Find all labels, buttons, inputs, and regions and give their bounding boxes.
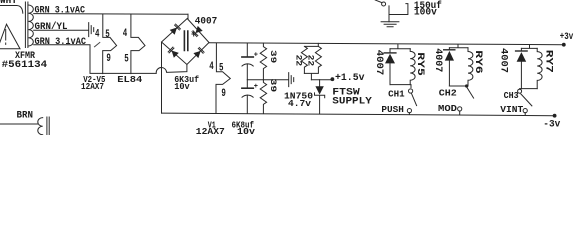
svg-text:5: 5 [124, 53, 129, 65]
wire node +1.5v [311, 79, 331, 81]
svg-text:4007: 4007 [373, 50, 384, 76]
svg-text:22: 22 [306, 55, 316, 67]
svg-text:CH3: CH3 [504, 91, 519, 101]
svg-text:4007: 4007 [195, 16, 218, 27]
warning triangle symbol [0, 24, 20, 49]
node dot +1.5v [331, 77, 335, 81]
tube V2-V5 heater symbol [103, 14, 117, 73]
wire GRN/YL center tap [34, 29, 88, 31]
node +3v dot [562, 43, 566, 47]
relay coil RY6 [468, 48, 473, 86]
svg-text:5: 5 [105, 29, 110, 41]
resistor 39 upper [260, 43, 266, 80]
transformer core bottom left [47, 117, 49, 135]
switch PUSH bottom contact [407, 109, 411, 113]
transformer primary winding bottom left [38, 118, 43, 135]
power switch top edge [382, 2, 386, 6]
tube V1 heater symbol [216, 43, 230, 113]
capacitor C top plates [242, 56, 253, 58]
wire relay 1 bottom tie [390, 85, 411, 88]
svg-text:10v: 10v [174, 81, 190, 92]
relay 1 bus tie [390, 45, 410, 49]
svg-text:10v: 10v [237, 126, 255, 135]
svg-text:CH2: CH2 [439, 88, 457, 98]
diode bridge bottom-right 4007 [193, 47, 204, 58]
wire bridge top AC lead [187, 14, 189, 18]
svg-text:EL84: EL84 [117, 74, 142, 85]
svg-text:GRN 3.1vAC: GRN 3.1vAC [35, 37, 87, 48]
svg-text:39: 39 [268, 79, 278, 93]
switch VINT bottom contact [523, 109, 527, 113]
diode bridge top-right 4007 [192, 26, 203, 37]
wire cap mid node [247, 64, 288, 80]
svg-text:4007: 4007 [498, 48, 509, 73]
svg-text:SUPPLY: SUPPLY [332, 96, 372, 107]
bridge rectifier diamond [162, 19, 210, 65]
diode 4007 relay 3 [516, 50, 528, 52]
svg-text:+3v: +3v [560, 31, 574, 43]
svg-text:+: + [254, 52, 258, 60]
svg-text:PUSH: PUSH [381, 104, 404, 115]
svg-text:5: 5 [219, 62, 224, 74]
svg-text:4: 4 [123, 28, 128, 40]
switch PUSH arm [411, 93, 416, 105]
svg-text:VINT: VINT [500, 104, 523, 115]
svg-text:-3v: -3v [543, 118, 561, 130]
transformer XFMR core [25, 2, 28, 48]
svg-text:#561134: #561134 [2, 60, 48, 71]
relay coil RY5 [410, 49, 415, 85]
relay 3 bus tie [521, 45, 537, 49]
wire plus bus top rail [209, 43, 564, 45]
diode 4007 relay 2 [444, 49, 455, 51]
switch PUSH top contact [409, 89, 413, 93]
svg-text:BRN: BRN [17, 111, 34, 122]
resistor 39 lower [260, 80, 266, 114]
svg-text:22: 22 [293, 55, 303, 67]
wire bridge left corner down to minus bus [161, 42, 163, 113]
capacitor C bottom 6K8uf [246, 80, 248, 88]
wire switch to ground and cap [389, 4, 408, 22]
switch VINT arm [521, 94, 532, 106]
wire BRN primary lead [0, 123, 38, 125]
svg-text:12AX7: 12AX7 [196, 126, 225, 135]
svg-text:100v: 100v [414, 8, 437, 19]
tube EL84 heater symbol [131, 14, 145, 73]
capacitor C top 6K8uf lead [246, 43, 248, 57]
ground chassis right-facing on cap midpoint [289, 73, 294, 87]
wire WHT lead curving down [0, 6, 23, 14]
svg-text:CH1: CH1 [388, 90, 405, 100]
capacitor plates inside bridge [184, 31, 187, 51]
switch MOD top contact [465, 84, 468, 87]
node -3v dot [553, 114, 557, 118]
wire relay 3 bottom tie [520, 88, 538, 90]
relay 2 bus tie [449, 45, 468, 48]
svg-text:9: 9 [221, 88, 226, 100]
zener diode 1N750 [319, 80, 321, 86]
resistor 22 right [304, 46, 321, 79]
ground earth symbol top middle [381, 22, 399, 27]
resistor 22 left [301, 43, 318, 73]
svg-text:9: 9 [106, 53, 111, 65]
svg-text:+: + [191, 30, 196, 40]
wire artifact diagonal [95, 42, 100, 46]
svg-text:MOD: MOD [438, 103, 457, 114]
transformer XFMR secondary winding [28, 5, 33, 46]
switch MOD bottom contact [458, 107, 462, 111]
svg-text:GRN/YL: GRN/YL [35, 21, 68, 33]
wire minus bus bottom rail [162, 113, 555, 116]
svg-text:4.7v: 4.7v [288, 98, 311, 109]
switch MOD arm [467, 88, 474, 99]
svg-text:GRN 3.1vAC: GRN 3.1vAC [35, 6, 86, 17]
wire relay 2 bottom tie [449, 85, 466, 87]
diode bridge top-left 4007 [170, 24, 181, 35]
wire heater top from winding to bridge [34, 13, 188, 16]
svg-text:4007: 4007 [432, 48, 443, 72]
relay coil RY7 [537, 48, 542, 88]
svg-text:RY6: RY6 [472, 50, 483, 73]
svg-text:4: 4 [209, 61, 214, 73]
diode 4007 relay 1 [384, 52, 396, 54]
svg-text:4: 4 [95, 29, 100, 41]
svg-text:+1.5v: +1.5v [335, 73, 365, 84]
switch VINT top contact [518, 89, 522, 93]
diode bridge bottom-left 4007 [168, 47, 179, 58]
ground chassis right-facing on center tap [89, 23, 94, 37]
svg-text:39: 39 [268, 50, 278, 63]
svg-text:12AX7: 12AX7 [81, 81, 104, 92]
svg-text:+: + [254, 83, 258, 91]
svg-text:RY7: RY7 [543, 50, 554, 73]
wire heater bottom from winding down and right [34, 45, 157, 74]
wire jump-over hump to bridge bottom [156, 65, 187, 73]
svg-text:RY5: RY5 [414, 52, 425, 76]
